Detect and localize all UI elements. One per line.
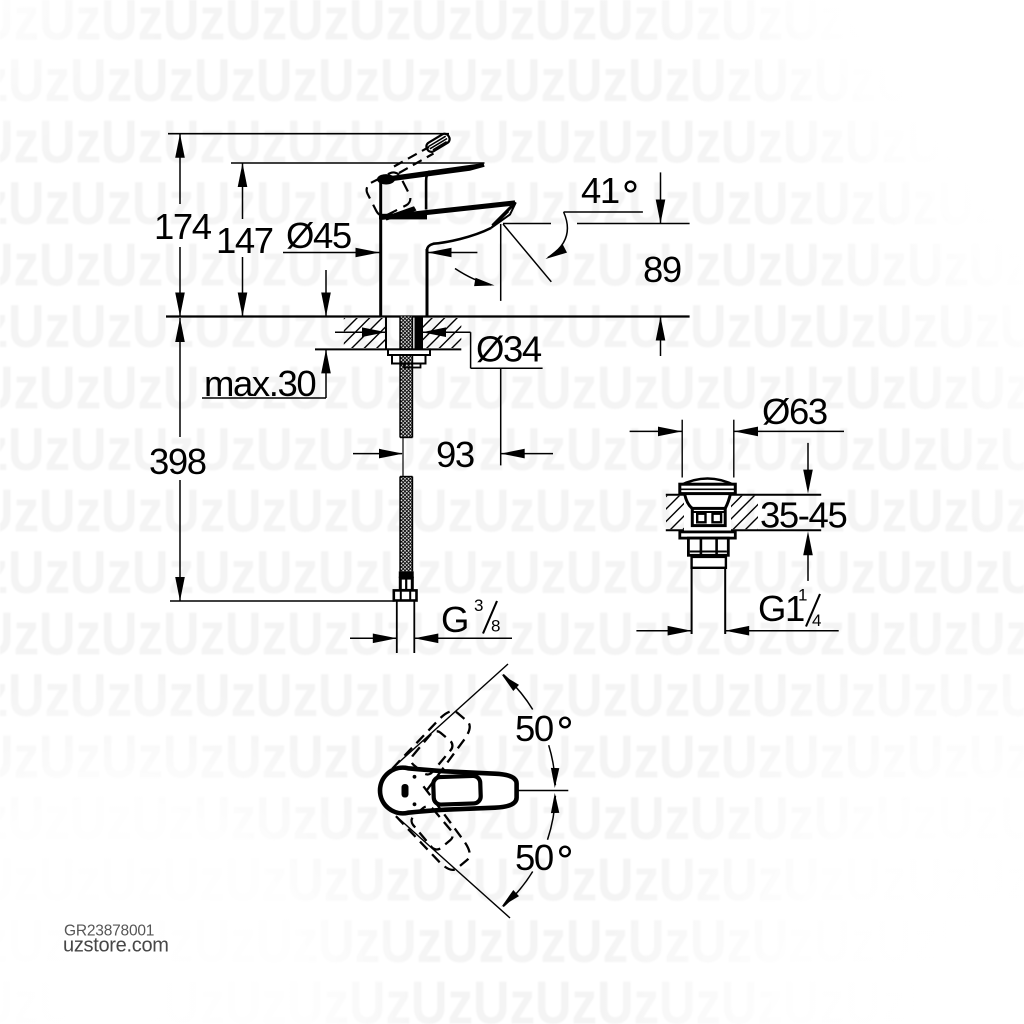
shank walls [385,317,387,350]
svg-text:147: 147 [216,220,273,261]
50° upper arc [549,745,556,785]
svg-text:50: 50 [515,837,553,878]
50° upper ray [396,664,508,765]
svg-text:Ø45: Ø45 [286,215,351,256]
drain cap dome [680,479,735,486]
svg-text:174: 174 [154,206,212,247]
spout top edge [381,203,516,218]
raised lever knob [425,132,452,153]
dimension 41° [455,170,643,301]
drain extension lines [681,420,683,478]
lever neck [426,171,430,209]
dimension 89 [643,172,681,356]
svg-text:max.30: max.30 [204,363,315,404]
counter hatch left [344,318,386,348]
dimension Ø63 [630,391,844,436]
raised lever dashed stem [394,147,434,173]
drain slab hatch [666,496,758,530]
dimension 147 [216,163,273,317]
hose nut [394,590,417,600]
handle dots [413,775,417,779]
drain neck [685,494,731,509]
svg-text:35-45: 35-45 [760,495,846,536]
dimension 398 [149,318,206,601]
spout tip height reference line (89) [503,223,551,225]
drain body [692,508,725,525]
counter hatch right [422,318,461,348]
deck / mounting surface line [166,315,690,317]
watermark fade bottom-left [0,680,440,1024]
dimension Ø45 [283,215,477,257]
drain cap [680,484,736,493]
drain tailpipe G1 1/4 [691,568,693,634]
mounting flange [388,349,430,355]
shank dark bar [415,318,422,350]
handle centerline [517,790,568,792]
flexible hose upper [400,317,413,438]
faucet body left wall [379,179,382,317]
50° lower ray [396,816,510,918]
flexible hose lower [400,477,413,572]
drain counter slab bottom line [666,529,821,531]
connection tube G3/8 [396,601,398,654]
handle base dark wedge [384,206,417,220]
handle dashed position upper [392,704,477,795]
svg-text:89: 89 [643,249,681,290]
reference line top of lever (147) [231,162,485,164]
svg-text:Ø34: Ø34 [476,329,542,370]
svg-text:50: 50 [515,708,553,749]
drain flange [680,532,736,538]
svg-text:G: G [441,599,468,640]
drain counter slab top line [666,494,821,496]
handle window [433,776,481,805]
counter bottom line [315,348,461,350]
svg-text:3: 3 [474,596,483,615]
41° leader arc [548,212,567,258]
svg-text:398: 398 [149,441,206,482]
drain collar [692,557,726,568]
watermark fade top-right [480,0,1024,700]
mounting nut [392,355,426,364]
dimension 35-45 [760,443,846,581]
drain nut [688,538,728,555]
lever pivot [377,174,395,184]
svg-text:41: 41 [581,170,619,211]
dimension G1 1/4 [636,586,838,636]
handle dashed position lower [392,786,477,877]
raised lever handle dashed outline [364,170,413,219]
faucet body right wall [426,249,429,317]
dimension max.30 [202,270,331,404]
reference line top of raised lever (174) [168,133,449,135]
vertical direction line [500,224,502,301]
svg-text:Ø63: Ø63 [762,391,827,432]
faucet lever (solid, horizontal) [386,163,485,182]
spout bottom edge [427,228,491,251]
svg-text:1: 1 [798,586,807,605]
svg-text:93: 93 [436,434,474,475]
dimension G3/8 [350,596,512,643]
hose end reference line (398) [170,600,395,602]
svg-text:uzstore.com: uzstore.com [63,935,169,957]
hose centerline [402,438,404,477]
dimension 93 [353,434,553,475]
dimension Ø34 [335,327,543,465]
drain waste body mask [684,494,731,531]
watermark fade bottom-right [560,560,1024,1024]
drain body windows [697,514,705,523]
watermark fade top-left [0,0,190,190]
svg-text:8: 8 [491,617,500,636]
lower direction arc [455,269,491,286]
handle top view solid [380,768,517,814]
hose collet [400,578,412,590]
spout tip and aerator [491,203,516,229]
handle button [402,784,409,798]
water stream diagonal [503,224,551,282]
svg-text:4: 4 [812,611,821,630]
hose ferrule [399,571,414,578]
dimension 174 [154,134,212,317]
50° lower arc [548,796,556,840]
